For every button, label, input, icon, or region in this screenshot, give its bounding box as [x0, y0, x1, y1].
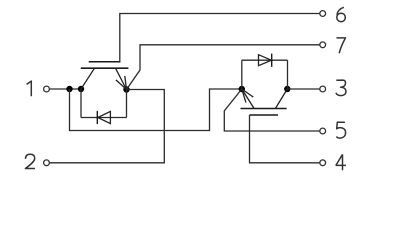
terminal 3 circle [320, 86, 326, 92]
node junction dot C (T1 emitter) [123, 86, 129, 92]
label terminal 2 [25, 154, 35, 168]
IGBT T1 emitter arrow wings [116, 76, 127, 90]
wire: T1 emitter to pin 2 [50, 90, 165, 163]
label terminal 5 [336, 122, 345, 138]
IGBT T2 emitter arrow wings [242, 89, 254, 103]
diode FWD2 triangle [259, 55, 272, 66]
terminal 6 circle [320, 11, 326, 17]
label terminal 7 [337, 38, 346, 53]
wire: T2 auxiliary emitter to pin 5 [224, 89, 319, 131]
IGBT T1 emitter leg [116, 68, 127, 89]
wire: diode FWD1 horizontal lead [81, 117, 127, 119]
IGBT T2 gate bar [250, 114, 279, 116]
node junction dot D (T2 emitter) [239, 86, 245, 92]
wire: diode FWD2 cathode lead (to T2 collector node) [287, 60, 289, 89]
wire: T2 gate lead to pin 4 [250, 115, 320, 163]
IGBT T2 body bar [241, 108, 287, 110]
wire: diode FWD2 horizontal lead [242, 59, 288, 61]
node junction dot E (T2 collector) [284, 86, 290, 92]
wire: midpoint link (T1 collector to T2 emitter) [70, 89, 242, 131]
terminal 1 circle [44, 86, 50, 92]
IGBT T1 body bar [81, 67, 129, 69]
label terminal 1 [27, 81, 32, 96]
node junction dot B (T1 collector) [78, 86, 84, 92]
IGBT T2 emitter leg [242, 89, 254, 109]
terminal 7 circle [320, 42, 326, 48]
node junction dot A (midpoint branch) [66, 86, 72, 92]
wire: diode FWD1 cathode lead (to T1 emitter node) [126, 90, 128, 118]
wire: T1 gate lead to pin 6 [120, 14, 320, 62]
label terminal 6 [337, 7, 346, 21]
label terminal 4 [336, 154, 346, 170]
IGBT T1 collector leg [81, 68, 95, 89]
wire: pin 1 collector rail [50, 88, 81, 90]
wire: T2 collector to pin 3 [287, 88, 319, 90]
terminal 2 circle [44, 160, 50, 166]
wire: T1 auxiliary emitter to pin 7 [127, 45, 320, 90]
terminal 5 circle [320, 128, 326, 134]
IGBT T1 gate bar [89, 61, 121, 63]
wire: diode FWD1 anode lead (from T1 collector node) [80, 89, 82, 118]
label terminal 3 [336, 80, 346, 96]
diode FWD2 cathode bar [271, 54, 273, 67]
IGBT T2 collector leg [275, 89, 287, 109]
terminal 4 circle [320, 160, 326, 166]
diode FWD1 cathode bar [96, 111, 98, 124]
diode FWD1 triangle [98, 111, 111, 123]
wire: diode FWD2 anode lead (from T2 emitter node) [241, 60, 243, 89]
